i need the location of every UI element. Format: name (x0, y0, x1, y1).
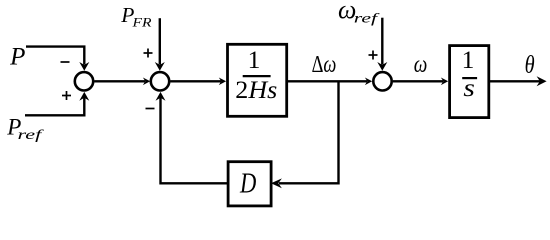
block D (228, 162, 271, 206)
wire P input (26, 47, 84, 65)
sign plus at S1 (62, 95, 71, 97)
svg-text:s: s (463, 73, 475, 102)
wire D to S2 (161, 98, 229, 184)
svg-text:ω: ω (414, 52, 428, 78)
block U1 1/(2Hs) (228, 44, 287, 116)
svg-text:ref: ref (354, 11, 381, 26)
svg-text:θ: θ (525, 52, 535, 79)
wire block 1/(2Hs) to S3 (287, 80, 367, 82)
wire P_ref input (25, 98, 84, 116)
svg-text:1: 1 (248, 45, 261, 74)
wire S2 to block 1/(2Hs) (170, 80, 221, 82)
block U2 1/s (450, 46, 489, 118)
wire feedback branch down to D (279, 81, 339, 183)
sign plus at S2 (144, 52, 153, 54)
svg-text:1: 1 (462, 45, 475, 74)
wire output theta (489, 80, 541, 82)
summing junction S2 (151, 72, 169, 90)
svg-text:P: P (9, 44, 25, 71)
wire P_FR input (159, 18, 161, 64)
sign minus at S2 (146, 108, 155, 110)
summing junction S1 (75, 72, 93, 90)
sign minus at S1 (61, 61, 70, 63)
svg-text:2Hs: 2Hs (235, 75, 277, 104)
summing junction S3 (373, 72, 391, 90)
svg-text:Δω: Δω (312, 52, 337, 78)
wire S3 to block 1/s (393, 80, 443, 82)
sign plus at S3 (369, 54, 378, 56)
svg-text:FR: FR (131, 15, 151, 30)
wire S1 to S2 (94, 80, 145, 82)
wire omega_ref input (381, 18, 383, 65)
svg-text:D: D (239, 168, 256, 199)
svg-text:ref: ref (18, 128, 45, 143)
